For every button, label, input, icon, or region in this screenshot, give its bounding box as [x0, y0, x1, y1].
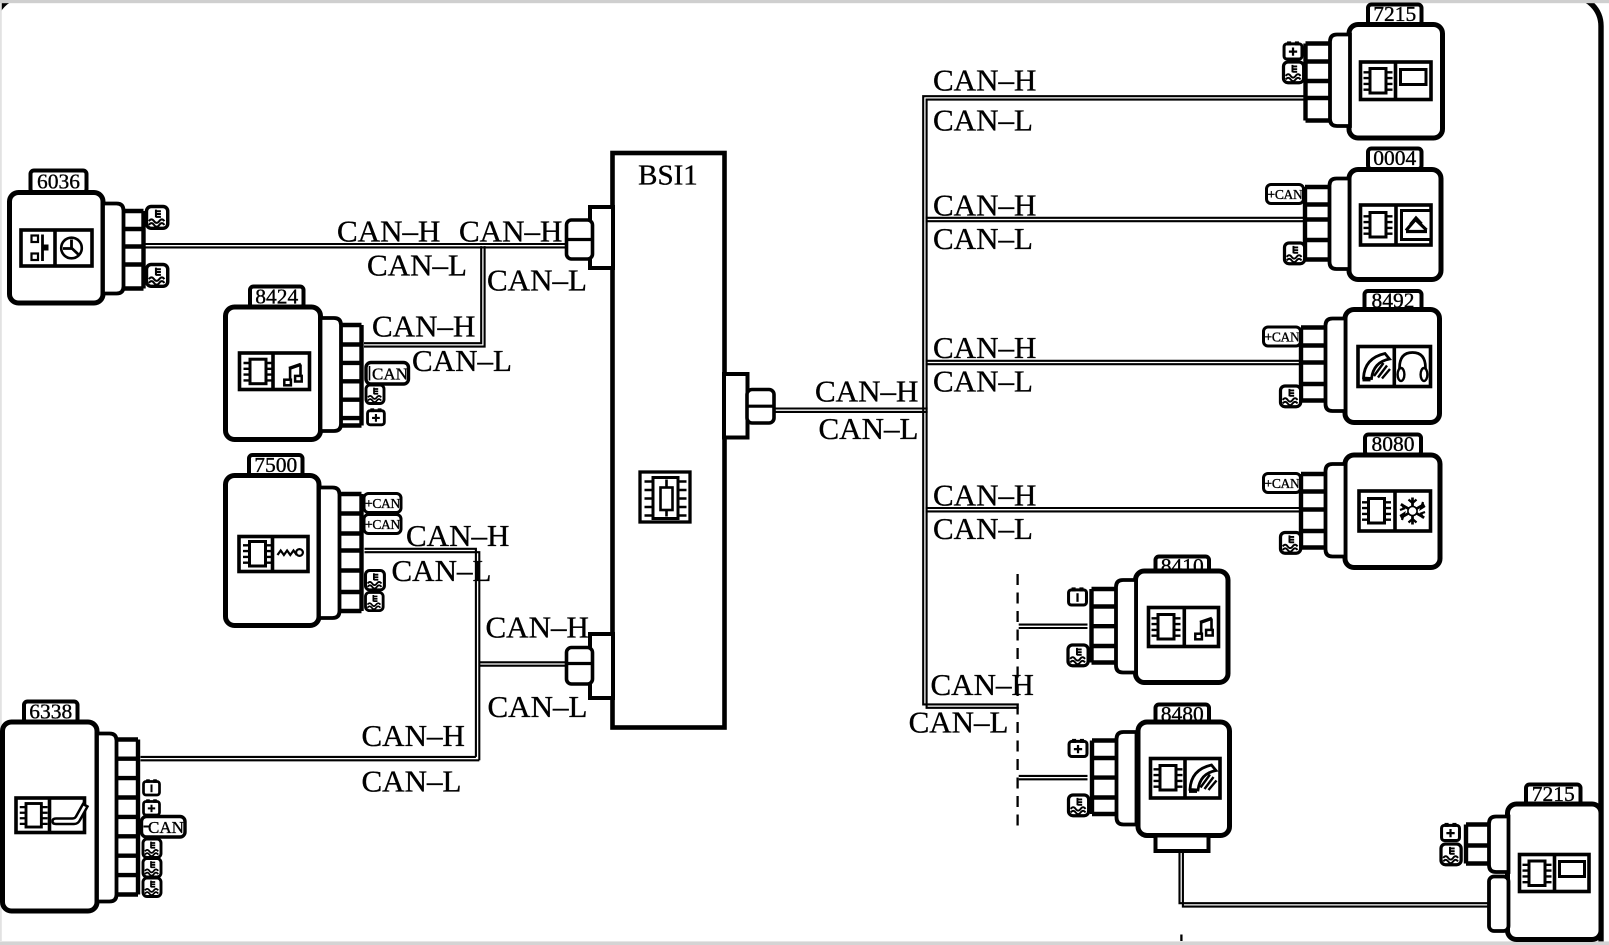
BSI1 upper-left connector [590, 207, 613, 268]
label CAN-H [362, 718, 465, 753]
svg-text:CAN–H: CAN–H [337, 213, 440, 248]
label CAN-H [337, 213, 440, 248]
svg-text:CAN: CAN [148, 818, 184, 837]
7215 top battery + symbol [1284, 41, 1302, 59]
label CAN-H [815, 373, 918, 408]
0004 terminal symbol [1285, 243, 1305, 264]
label CAN-L [933, 103, 1033, 138]
6338 terminal symbol (to harness, 3) [143, 878, 161, 897]
svg-text:CAN–L: CAN–L [933, 364, 1033, 399]
6338 terminal symbol (to harness, 2) [143, 859, 161, 878]
svg-text:CAN–L: CAN–L [362, 763, 462, 798]
svg-text:CAN–L: CAN–L [933, 511, 1033, 546]
svg-text:CAN–H: CAN–H [815, 373, 918, 408]
wire CAN pair 8480 to bottom 7215 [1180, 851, 1490, 907]
svg-text:8080: 8080 [1372, 432, 1415, 456]
6338 battery + supply symbol [144, 799, 160, 815]
svg-text:CAN–L: CAN–L [487, 263, 587, 298]
7500 terminal symbol (to harness, 1) [366, 571, 385, 590]
svg-text:CAN–L: CAN–L [412, 343, 512, 378]
svg-text:CAN–H: CAN–H [362, 718, 465, 753]
dashed splice line [1018, 574, 1182, 941]
8480 battery + supply symbol [1069, 739, 1087, 757]
BSI1 lower-left pin [567, 648, 593, 685]
8080 terminal symbol [1281, 533, 1301, 554]
label CAN-H [933, 330, 1036, 365]
svg-text:CAN–H: CAN–H [933, 188, 1036, 223]
wire CAN pair 6036 to BSI1 [145, 244, 568, 247]
ECU 0004 (airbag control) [1305, 146, 1441, 280]
svg-text:BSI1: BSI1 [638, 160, 698, 192]
wire CAN branch bus to 8080 [926, 508, 1300, 511]
6338 pin label CAN [142, 817, 186, 838]
7215 top terminal symbol [1284, 62, 1304, 83]
label CAN-L [933, 364, 1033, 399]
BSI1 lower-left connector [590, 634, 613, 698]
svg-text:CAN–H: CAN–H [933, 330, 1036, 365]
svg-text:CAN–L: CAN–L [392, 553, 492, 588]
8424 pin label CAN [366, 363, 409, 385]
7500 pin label +CAN (1) [364, 494, 401, 513]
wire CAN pair junction to BSI1 lower connector [479, 662, 567, 665]
6338 terminal symbol (to harness, 1) [143, 839, 161, 858]
8424 battery + supply symbol [368, 408, 385, 424]
svg-text:CAN–H: CAN–H [372, 308, 475, 343]
label CAN-H [406, 518, 509, 553]
svg-text:CAN–L: CAN–L [367, 248, 467, 283]
label CAN-L [487, 263, 587, 298]
wire CAN stub splice to 8480 [1019, 776, 1088, 779]
svg-text:6036: 6036 [37, 169, 80, 193]
svg-text:CAN–H: CAN–H [933, 478, 1036, 513]
label CAN-L [819, 411, 919, 446]
label CAN-L [488, 689, 588, 724]
svg-text:CAN–L: CAN–L [909, 704, 1009, 739]
7215 bottom terminal symbol [1441, 844, 1461, 865]
ECU 8080 (air conditioning control) [1301, 432, 1440, 568]
ECU 7500 (radio unit) [226, 453, 362, 626]
ECU 6036 (door / fan control) [10, 169, 144, 303]
8410 battery supply symbol [1069, 587, 1087, 605]
svg-text:CAN: CAN [372, 365, 408, 384]
ECU 8410 (audio system) [1092, 554, 1229, 683]
8410 terminal symbol [1068, 645, 1088, 666]
8492 terminal symbol [1281, 386, 1301, 407]
label CAN-H [933, 188, 1036, 223]
ECU 7215 top (multifunction display) [1306, 2, 1443, 138]
svg-text:CAN–H: CAN–H [931, 667, 1034, 702]
label CAN-L [412, 343, 512, 378]
wire CAN bus vertical with top branch to 7215 and bottom corner [923, 96, 1303, 708]
7500 pin label +CAN (2) [364, 515, 401, 534]
6036 terminal symbol (to harness, lower) [147, 265, 168, 287]
svg-text:0004: 0004 [1373, 146, 1416, 170]
wire CAN branch bus to 8492 [926, 361, 1300, 364]
svg-text:CAN–H: CAN–H [459, 213, 562, 248]
8424 terminal symbol (to harness) [366, 385, 384, 404]
ECU 8492 (steering wheel / hands-free controls) [1301, 288, 1440, 422]
svg-text:CAN–L: CAN–L [933, 221, 1033, 256]
ECU BSI1 (body control unit) [613, 153, 725, 728]
wire CAN pair 8424 to junction [364, 246, 485, 347]
wire CAN pair BSI1 to bus [774, 409, 928, 412]
ECU 8480 (steering column / wheel module) [1092, 702, 1230, 851]
8080 pin label +CAN [1264, 474, 1301, 493]
wire CAN pair 7500 to junction riser [365, 549, 480, 761]
ECU 6338 (seat memory module) [3, 699, 139, 911]
ECU 8424 (audio amplifier) [226, 284, 362, 439]
label CAN-H [931, 667, 1034, 702]
label CAN-L [392, 553, 492, 588]
label CAN-H [459, 213, 562, 248]
label CAN-L [362, 763, 462, 798]
ECU 7215 bottom (display unit) [1466, 782, 1601, 940]
label CAN-H [486, 610, 589, 645]
6036 terminal symbol (to harness, upper) [147, 207, 168, 229]
svg-text:CAN–L: CAN–L [488, 689, 588, 724]
label CAN-H [933, 478, 1036, 513]
label CAN-L [933, 511, 1033, 546]
BSI1 right pin [747, 390, 774, 424]
svg-text:CAN–L: CAN–L [819, 411, 919, 446]
BSI1 right connector [724, 374, 748, 438]
wire CAN branch bus to 0004 [926, 218, 1304, 221]
8480 terminal symbol [1069, 795, 1089, 816]
8492 pin label +CAN [1264, 327, 1301, 346]
label CAN-L [367, 248, 467, 283]
label CAN-H [372, 308, 475, 343]
label CAN-L [933, 221, 1033, 256]
svg-text:CAN–H: CAN–H [486, 610, 589, 645]
wire CAN stub splice to 8410 [1019, 625, 1088, 628]
7215 bottom battery + symbol [1442, 823, 1460, 841]
6338 battery supply symbol [144, 779, 160, 795]
7500 terminal symbol (to harness, 2) [366, 593, 384, 611]
svg-text:CAN–H: CAN–H [933, 63, 1036, 98]
label CAN-L [909, 704, 1009, 739]
wire CAN pair 6338 to junction riser [141, 757, 480, 760]
label CAN-H [933, 63, 1036, 98]
0004 pin label +CAN [1267, 185, 1304, 204]
BSI1 upper-left pin [567, 220, 593, 259]
svg-text:CAN–L: CAN–L [933, 103, 1033, 138]
svg-text:CAN–H: CAN–H [406, 518, 509, 553]
